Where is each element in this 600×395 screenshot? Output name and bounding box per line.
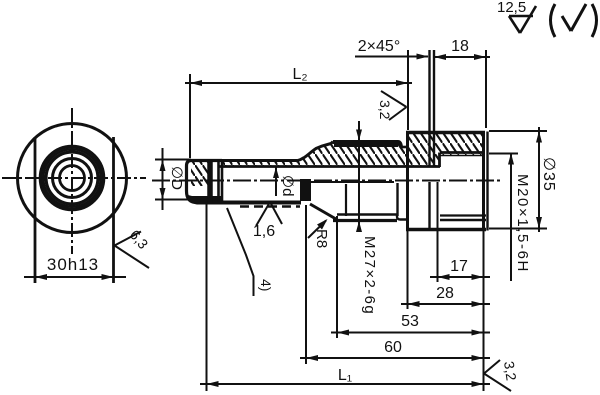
svg-text:L₂: L₂ [292,66,307,83]
main view centerline [152,180,500,182]
M20 hole end face [438,153,441,168]
cone solid black section [300,179,311,201]
svg-text:3,2: 3,2 [377,100,393,120]
svg-text:M20×1,5-6H: M20×1,5-6H [514,174,531,273]
dim 53 line [331,332,490,334]
hex top line [406,131,485,134]
dim 53 left extension [336,216,338,338]
svg-text:17: 17 [450,258,468,275]
dim 60 left extension [305,205,307,364]
dim 17 line [430,276,490,278]
roughness 6,3 left view [115,232,150,269]
right face [482,131,485,231]
dimension 30h13 [24,276,126,278]
dim L2 line [185,82,412,84]
M20 hole bottom major line [440,219,486,222]
left view outer circle [18,124,127,233]
svg-text:60: 60 [384,339,402,356]
dim L2 right extension [407,50,409,130]
nipple cap outline [187,161,223,203]
hidden dashed line under tube [240,205,300,207]
undercut groove edge below axis [396,183,398,216]
roughness 3,2 bottom right [484,360,511,391]
svg-text:4): 4) [258,279,274,291]
svg-text:∅35: ∅35 [540,157,557,192]
tube bottom outer line [218,201,301,205]
hex chamfer line 2 [433,50,435,167]
dim phiD line [162,148,164,210]
dim phi35 extension top [489,130,547,132]
svg-text:L₁: L₁ [338,367,352,384]
leader note 4 [227,208,254,296]
undercut groove bottom [397,215,408,220]
dim 18 line [434,56,490,58]
dim 18 right extension [485,50,487,128]
svg-text:2×45°: 2×45° [358,38,400,55]
leader R8 [308,221,326,239]
hex bottom line [406,228,486,231]
left view flat line right [112,137,115,283]
nipple cap right face [207,161,213,204]
cone top S-curve [296,142,333,162]
dim phiD extension bottom [155,199,191,201]
parentheses check symbol [551,4,597,37]
svg-text:30h13: 30h13 [47,255,99,274]
dim 28 line [401,303,490,305]
svg-text:∅D: ∅D [168,166,185,190]
dim phiD extension top [155,159,191,161]
dim M27 line [358,121,360,231]
svg-text:R8: R8 [313,229,330,248]
hex chamfer line 1 [428,50,430,167]
M20 hole top minor line [440,155,484,157]
dim L2 left extension [189,74,191,158]
left view flat line left [34,137,37,283]
dim M20 extension [489,153,518,155]
svg-text:∅d: ∅d [279,175,296,196]
centerline solid segment [311,181,394,183]
roughness 3,2 at L2 extension [381,91,407,120]
svg-text:3,2: 3,2 [501,360,520,382]
nipple cap bottom thick edge [188,195,222,205]
left view horizontal centerline [2,177,146,179]
common right extension line [483,231,485,391]
bore top line [218,165,440,168]
leader 2x45 [355,56,428,58]
svg-text:28: 28 [436,285,454,302]
M20 hole bottom minor line [440,214,486,216]
hatch nipple cap [191,161,208,186]
undercut groove top [400,146,408,149]
dim phid line [275,167,277,196]
svg-text:1,6: 1,6 [253,223,275,240]
thread bottom crest line [333,219,397,222]
thread bottom root line [337,213,397,216]
left view thread ring [41,147,104,210]
dim L1 left extension [206,203,208,391]
tube top outer line [190,159,297,162]
dim 28 left extension [407,231,409,309]
hole entrance chamfer line [486,132,488,231]
cone bottom slant [310,204,336,219]
dim 17 left extension [437,182,439,282]
M20 hole top major line [440,151,484,154]
svg-text:12,5: 12,5 [497,0,526,16]
dim L1 line [200,383,490,385]
svg-text:18: 18 [451,38,469,55]
left view circle r19 [53,159,92,198]
svg-text:M27×2-6g: M27×2-6g [361,236,378,315]
thread top root line [334,144,398,147]
dim phi35 extension bottom [489,228,547,230]
left view vertical centerline [71,108,73,254]
dim 60 line [300,357,490,359]
dim phi35 line [538,127,540,232]
hatch cone and body [221,132,484,167]
tube end face double line [217,161,220,203]
roughness 1,6 on tube bottom [256,202,282,226]
thread top crest line [333,142,401,147]
svg-text:53: 53 [401,313,419,330]
left view bore circle [60,166,85,191]
dim M20 line [510,153,512,282]
hex left face [406,132,409,232]
thread runout line below axis [345,184,347,216]
